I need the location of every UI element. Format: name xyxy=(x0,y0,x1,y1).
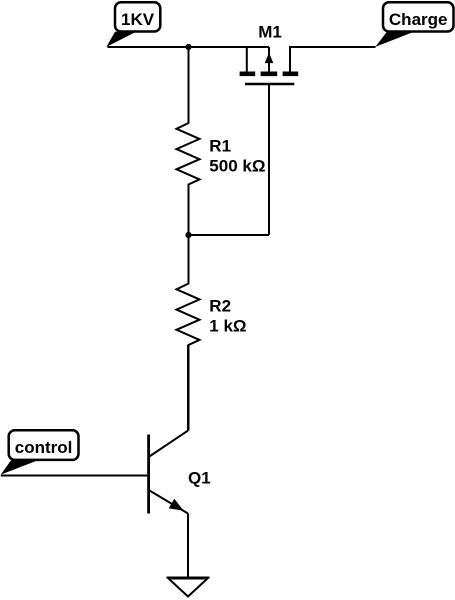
M1 gate plate xyxy=(245,83,294,86)
svg-text:1KV: 1KV xyxy=(121,10,155,29)
Q1 emitter diagonal xyxy=(149,490,188,514)
wire: collector up to R2 xyxy=(187,345,189,431)
mosfet M1 xyxy=(240,23,299,85)
wire: emitter down to ground xyxy=(187,514,189,578)
M1 left leg (source) xyxy=(246,46,248,72)
node: junction dot at R1/R2/gate xyxy=(185,232,191,238)
Q1 bar xyxy=(147,435,150,514)
node: junction dot at top of R1 xyxy=(185,44,191,50)
M1 bulk pad xyxy=(261,72,278,77)
flag 1KV xyxy=(106,2,160,47)
wire: control flag to Q1 base xyxy=(1,475,149,477)
svg-text:Charge: Charge xyxy=(389,10,448,29)
svg-text:M1: M1 xyxy=(258,23,282,42)
svg-text:500 kΩ: 500 kΩ xyxy=(209,156,265,175)
svg-text:R1: R1 xyxy=(209,136,231,155)
M1 source pad xyxy=(240,72,256,77)
transistor Q1 xyxy=(149,431,211,514)
resistor R2 xyxy=(177,235,247,431)
wire: top net from M1 drain to Charge flag xyxy=(290,46,376,48)
wire: M1 gate lead down xyxy=(268,84,270,235)
flag Charge xyxy=(375,2,453,47)
M1 right leg (drain) xyxy=(289,46,291,72)
ground xyxy=(167,578,210,597)
svg-text:R2: R2 xyxy=(209,297,231,316)
Q1 collector diagonal xyxy=(149,431,188,457)
M1 bulk arrow shaft xyxy=(268,47,270,72)
flag control xyxy=(1,430,79,474)
svg-text:control: control xyxy=(15,438,73,457)
M1 bulk arrowhead (points up) xyxy=(265,53,274,64)
svg-text:Q1: Q1 xyxy=(188,468,211,487)
wire: gate to mid junction xyxy=(189,234,270,236)
Q1 emitter arrowhead xyxy=(169,499,184,511)
M1 drain pad xyxy=(283,72,299,77)
svg-text:1 kΩ: 1 kΩ xyxy=(209,317,246,336)
resistor R1 xyxy=(177,47,266,235)
wire: top net from 1KV flag to M1 source arrow xyxy=(108,46,270,48)
